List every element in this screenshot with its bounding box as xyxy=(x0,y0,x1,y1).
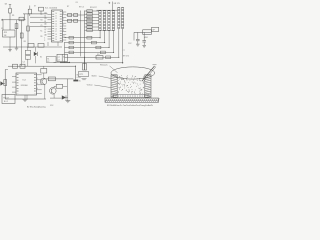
diode D2 xyxy=(62,95,66,99)
svg-text:B2 ShouKongBaoJing: B2 ShouKongBaoJing xyxy=(27,107,46,109)
wire branch A xyxy=(2,20,4,30)
ground G1 xyxy=(8,49,12,51)
wire right drop2 xyxy=(143,32,145,40)
svg-text:20: 20 xyxy=(55,39,57,41)
svg-text:13: 13 xyxy=(55,21,57,23)
ground G1b xyxy=(15,47,18,49)
resistor R19 xyxy=(28,43,34,47)
piezo BL xyxy=(73,80,78,82)
svg-text:17: 17 xyxy=(55,31,57,33)
wire ladder bus xyxy=(84,11,86,71)
wire mid vert xyxy=(80,11,82,57)
wire mid row2 xyxy=(66,20,84,22)
resistor R25 xyxy=(48,77,55,81)
plug XP xyxy=(152,27,159,31)
svg-text:C2: C2 xyxy=(40,14,42,16)
wire branch D xyxy=(27,14,29,47)
svg-text:6: 6 xyxy=(37,88,38,90)
heater bars RL1-RL4 xyxy=(99,11,101,31)
wire right stub xyxy=(133,32,135,40)
wire bottom rail xyxy=(60,62,123,64)
socket XS xyxy=(96,56,103,59)
wire probe vert xyxy=(84,57,86,70)
IC U1 left pin ticks xyxy=(52,12,54,42)
resistor R21 xyxy=(13,64,18,68)
relay K1 box xyxy=(3,30,16,37)
wire fig2 bottom xyxy=(5,98,46,100)
wire left drop xyxy=(21,47,23,66)
resistor R23 xyxy=(4,80,7,86)
wire fig2 left xyxy=(4,70,6,100)
svg-text:RtDianZu: RtDianZu xyxy=(100,63,108,66)
wire lower rail left xyxy=(3,46,62,48)
svg-text:R13: R13 xyxy=(87,18,90,20)
wire pin link 1 xyxy=(30,16,48,18)
svg-text:18: 18 xyxy=(55,34,57,36)
svg-text:WG1: WG1 xyxy=(144,37,148,39)
svg-text:R11-R17: R11-R17 xyxy=(90,7,97,9)
svg-text:11: 11 xyxy=(63,36,65,38)
resistor R10 xyxy=(74,19,78,22)
piezo BL feed xyxy=(75,66,77,79)
svg-text:RT1: RT1 xyxy=(80,74,85,76)
pot left wall xyxy=(111,75,117,98)
svg-text:VD2: VD2 xyxy=(50,105,53,107)
pot rim ellipse xyxy=(111,67,155,79)
svg-text:12: 12 xyxy=(55,18,57,20)
capacitor C1 block xyxy=(39,7,44,11)
svg-text:IC2: IC2 xyxy=(23,79,27,81)
IC U1 body xyxy=(52,10,63,42)
svg-text:4: 4 xyxy=(37,83,38,85)
wire V1 emitter xyxy=(44,85,46,99)
IC U2 right stubs xyxy=(37,74,42,76)
svg-text:1: 1 xyxy=(44,37,45,39)
switch S stub xyxy=(9,5,11,9)
wire V2 base xyxy=(53,86,55,87)
wire bars top xyxy=(97,9,118,11)
wire right drop1 xyxy=(137,32,139,39)
svg-text:10: 10 xyxy=(55,13,57,15)
svg-text:15: 15 xyxy=(55,26,57,28)
svg-text:WaiKe: WaiKe xyxy=(92,76,97,78)
svg-text:YinXian: YinXian xyxy=(87,85,93,87)
svg-text:JRX: JRX xyxy=(4,32,8,34)
svg-text:R15: R15 xyxy=(87,24,90,26)
svg-text:Q8: Q8 xyxy=(44,35,46,37)
wire branch C xyxy=(21,20,23,47)
svg-text:2: 2 xyxy=(44,40,45,42)
IC U1 left stubs xyxy=(48,13,52,15)
pot bottom plate xyxy=(113,95,149,98)
diode matrix staircase xyxy=(99,31,101,38)
svg-text:13: 13 xyxy=(44,21,46,23)
pot right wall xyxy=(145,75,151,98)
svg-text:B3 ReMxDianZu TanTouZaHuaPenZ: B3 ReMxDianZu TanTouZaHuaPenZhongDeAnZh xyxy=(107,104,154,107)
battery GB plus xyxy=(108,2,110,4)
resistor R1 xyxy=(9,9,12,14)
ground G5 xyxy=(65,100,70,102)
svg-text:b1: b1 xyxy=(63,57,65,59)
ground G4 xyxy=(24,95,26,99)
svg-text:Q6: Q6 xyxy=(44,24,46,26)
ground G2 xyxy=(136,43,140,45)
wire chain down xyxy=(27,59,29,66)
note box B xyxy=(57,54,68,61)
svg-text:a1: a1 xyxy=(58,57,60,59)
capacitor C5 box xyxy=(25,56,30,60)
buzzer label box xyxy=(2,95,15,104)
svg-text:11: 11 xyxy=(55,16,57,18)
diode D1 xyxy=(34,52,38,56)
resistor R9 xyxy=(68,19,72,22)
svg-text:K2: K2 xyxy=(47,61,49,63)
wire vert join xyxy=(24,14,26,20)
label RT box xyxy=(79,72,89,77)
battery GB body xyxy=(118,8,120,29)
svg-text:SA: SA xyxy=(5,2,8,5)
wire IC drop stubs xyxy=(47,42,49,46)
wire chain vert xyxy=(27,47,29,50)
wire fig2 top xyxy=(8,65,76,67)
svg-text:16: 16 xyxy=(55,29,57,31)
svg-text:HTD27: HTD27 xyxy=(3,97,9,99)
wire V1 collector xyxy=(43,66,45,68)
svg-text:13F: 13F xyxy=(4,35,7,37)
svg-text:Q5: Q5 xyxy=(44,18,46,20)
wire branch B2 xyxy=(16,20,18,48)
wire IC bottom drop xyxy=(64,42,66,63)
wire mid vert2 xyxy=(66,79,68,94)
thermistor RT xyxy=(83,64,87,71)
wire mid bottom xyxy=(50,97,62,99)
svg-text:KD9300: KD9300 xyxy=(21,85,28,87)
IC U2 right ticks xyxy=(34,75,36,94)
wire right top xyxy=(134,31,152,33)
svg-text:R7: R7 xyxy=(67,6,69,8)
probe ticks xyxy=(82,78,87,80)
wire top rail xyxy=(23,13,48,15)
svg-text:R1: R1 xyxy=(12,15,14,17)
svg-text:R11: R11 xyxy=(87,11,90,13)
IC U2 left ticks xyxy=(17,75,19,94)
wire branch B xyxy=(9,20,11,30)
svg-text:R9 C5: R9 C5 xyxy=(79,7,84,9)
svg-text:15: 15 xyxy=(44,32,46,34)
wire input rail xyxy=(2,19,26,21)
svg-text:19: 19 xyxy=(55,36,57,38)
svg-text:C7: C7 xyxy=(123,50,125,52)
wire note link xyxy=(54,61,70,63)
svg-text:GB 12V: GB 12V xyxy=(114,3,121,5)
IC U2 left stubs xyxy=(12,76,16,78)
svg-text:K1: K1 xyxy=(40,31,42,33)
IC U1 right pin ticks xyxy=(60,12,62,42)
mic BM xyxy=(1,82,4,86)
resistor R4b xyxy=(15,24,18,29)
svg-text:Q4: Q4 xyxy=(44,13,46,15)
wire mid top xyxy=(44,78,73,80)
resistor R20 xyxy=(38,43,44,47)
svg-text:C4: C4 xyxy=(23,62,25,64)
capacitor C4 box xyxy=(25,50,30,54)
resistor R7 xyxy=(68,14,72,17)
ground G3 xyxy=(142,44,146,46)
svg-text:RP 4.7k: RP 4.7k xyxy=(123,56,129,58)
svg-text:R8: R8 xyxy=(24,41,26,43)
svg-text:C6: C6 xyxy=(76,2,78,4)
resistor R22 xyxy=(20,64,25,68)
resistor R6 xyxy=(27,26,30,31)
resistor R2 xyxy=(19,17,24,21)
note box A xyxy=(47,57,57,63)
svg-text:XT: XT xyxy=(34,6,36,8)
svg-text:a2: a2 xyxy=(58,60,60,62)
svg-text:R9: R9 xyxy=(40,36,42,38)
capacitor C3 xyxy=(142,40,146,42)
resistor R18 xyxy=(143,30,152,35)
transistor V1 xyxy=(40,78,47,85)
resistor R5 xyxy=(20,33,23,38)
svg-text:8o: 8o xyxy=(79,80,81,82)
resistor R8 xyxy=(74,14,78,17)
svg-text:BC-2: BC-2 xyxy=(4,101,8,103)
svg-text:C5: C5 xyxy=(40,25,42,27)
wire bars bottom xyxy=(100,30,114,32)
wire relay down xyxy=(9,37,11,50)
capacitor C2 xyxy=(136,38,140,40)
resistor R26 xyxy=(56,84,63,88)
svg-text:0.5W: 0.5W xyxy=(77,77,81,79)
svg-text:IC1 CD4060: IC1 CD4060 xyxy=(45,7,58,9)
wire pin link 3 xyxy=(30,26,48,28)
transistor V2 xyxy=(50,88,57,95)
wire mid row1 xyxy=(66,14,84,16)
resistor ladder R11-R17 xyxy=(85,10,99,12)
wire battery drop2 xyxy=(122,29,124,63)
svg-text:K1: K1 xyxy=(40,57,42,59)
svg-text:14: 14 xyxy=(44,26,46,28)
probe in soil xyxy=(142,66,155,81)
svg-text:12V: 12V xyxy=(128,43,132,45)
wire D2 out xyxy=(66,97,68,99)
soil speckle xyxy=(125,77,128,80)
wire pin link 2 xyxy=(30,21,48,23)
svg-text:14: 14 xyxy=(55,23,57,25)
svg-text:2: 2 xyxy=(37,78,38,80)
svg-text:R4: R4 xyxy=(40,20,42,22)
ground slab xyxy=(105,98,159,102)
svg-text:Q7: Q7 xyxy=(44,29,46,31)
resistor R24 xyxy=(41,69,47,74)
wire IC2 bottom drop xyxy=(26,95,28,99)
wire mic xyxy=(4,83,6,85)
IC U2 body xyxy=(16,73,37,95)
IC U1 right stubs xyxy=(63,11,67,13)
svg-text:K1: K1 xyxy=(1,28,3,30)
svg-text:12: 12 xyxy=(44,15,46,17)
